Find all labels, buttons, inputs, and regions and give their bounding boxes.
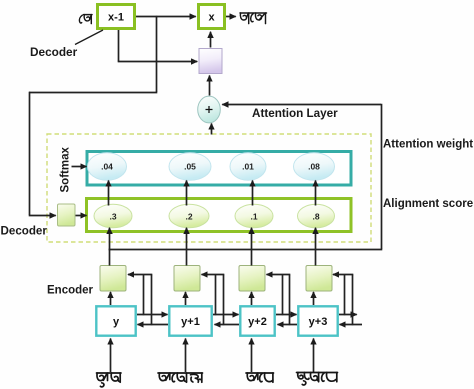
wire gap3 vertical right — [289, 275, 291, 326]
svg-text:.08: .08 — [308, 162, 320, 172]
wire score4 to weight4 — [315, 181, 317, 206]
wire h4 to score4 — [315, 228, 317, 266]
attention weight box — [87, 152, 351, 186]
svg-text:.2: .2 — [185, 212, 192, 222]
wire word4 to y+3 — [313, 339, 315, 373]
attention sum node + — [198, 96, 221, 123]
wire softmax into box — [72, 166, 87, 168]
svg-text:.3: .3 — [109, 212, 116, 222]
wire y+1 back to y — [138, 324, 169, 326]
encoder hidden box h4 — [306, 266, 332, 292]
wire back stub to y+3 — [340, 324, 363, 326]
wire y+3 forward stub — [339, 314, 357, 316]
attention weight ellipse .08 — [294, 153, 335, 181]
wire gap4 vertical left — [344, 275, 346, 316]
wire context bus — [109, 249, 383, 251]
svg-text:.01: .01 — [242, 162, 254, 172]
svg-text:Decoder: Decoder — [30, 45, 78, 59]
wire gap4 vertical right — [352, 275, 354, 326]
wire y forward to y+1 — [137, 314, 168, 316]
wire gap3 vertical left — [282, 275, 284, 316]
svg-text:.04: .04 — [101, 162, 113, 172]
encoder cell y+2 — [240, 306, 274, 335]
svg-text:.8: .8 — [312, 212, 319, 222]
wire into combine box — [118, 61, 198, 63]
decoder state box (small green) — [58, 204, 76, 226]
svg-text:Attention Layer: Attention Layer — [252, 107, 338, 120]
wire word1 to y — [110, 339, 112, 373]
wire decoder state to alignment — [76, 215, 87, 217]
wire word3 to y+2 — [251, 339, 253, 373]
wire x-1 to x — [136, 16, 196, 18]
alignment score ellipse .2 — [169, 204, 209, 228]
wire attention feed vertical — [381, 104, 383, 249]
wire score2 to weight2 — [186, 181, 188, 206]
wire plus to combine — [209, 76, 211, 96]
wire score1 to weight1 — [108, 181, 110, 206]
wire score3 to weight3 — [252, 181, 254, 206]
wire gap2 into h2 — [202, 274, 225, 276]
dashed region (attention block) — [47, 134, 371, 242]
wire y+3 back to y+2 — [278, 324, 298, 326]
alignment score ellipse .3 — [94, 204, 132, 228]
wire gap2 vertical right — [223, 275, 225, 326]
alignment score ellipse .1 — [235, 204, 273, 228]
svg-text:y+3: y+3 — [309, 316, 328, 328]
svg-text:Decoder: Decoder — [1, 225, 48, 238]
bengali word "me" left of x-1 — [79, 15, 92, 24]
wire x to output — [226, 16, 236, 18]
wire y+1 forward to y+2 — [213, 314, 239, 316]
bengali word "skul" — [97, 373, 122, 387]
wire gap4 into h4 — [333, 274, 353, 276]
alignment score ellipse .8 — [298, 204, 335, 228]
attention weight ellipse .01 — [230, 153, 266, 181]
decoder cell x — [199, 5, 225, 29]
combine box (lavender) — [199, 49, 222, 74]
wire down left side — [29, 92, 31, 215]
svg-text:y+1: y+1 — [181, 316, 200, 328]
attention weight ellipse .04 — [88, 153, 127, 181]
svg-text:y: y — [113, 316, 120, 328]
bengali word "kolej" — [158, 373, 203, 382]
wire y+3 to h4 — [313, 292, 315, 305]
svg-text:x: x — [208, 12, 215, 24]
wire gap3 into h3 — [267, 274, 291, 276]
alignment score box — [87, 199, 352, 232]
wire x-1 down — [118, 30, 120, 62]
encoder cell y+1 — [169, 306, 211, 335]
svg-text:Softmax: Softmax — [60, 147, 72, 193]
wire attention feed horizontal — [222, 104, 381, 106]
encoder cell y — [96, 306, 135, 335]
pointer line Decoder — [75, 30, 103, 45]
svg-text:.1: .1 — [250, 212, 257, 222]
wire word2 to y+1 — [185, 339, 187, 373]
attention weight ellipse .05 — [169, 153, 211, 181]
wire gap1 vertical left — [143, 275, 145, 316]
wire gap2 vertical left — [215, 275, 217, 316]
bengali word "mase" right of x — [240, 13, 267, 24]
wire into decoder state box — [29, 215, 56, 217]
wire junction down from x-1/x link — [156, 16, 158, 92]
encoder cell y+3 — [298, 306, 337, 335]
bengali word "kobe" — [246, 373, 274, 382]
wire gap1 into h1 — [128, 274, 152, 276]
svg-text:Attention weight: Attention weight — [383, 139, 473, 151]
svg-text:Encoder: Encoder — [47, 285, 94, 297]
decoder cell x-1 — [98, 5, 135, 29]
svg-text:Alignment score: Alignment score — [383, 198, 473, 210]
wire h3 to score3 — [251, 228, 253, 266]
encoder hidden box h1 — [100, 266, 126, 292]
wire across to left — [29, 92, 157, 94]
wire gap1 vertical right — [151, 275, 153, 326]
svg-text:x-1: x-1 — [108, 12, 124, 24]
wire weights to plus — [211, 124, 213, 135]
wire combine to x — [210, 32, 212, 48]
svg-text:y+2: y+2 — [248, 316, 267, 328]
wire y+1 to h2 — [185, 292, 187, 305]
bengali word "khulbe" — [297, 373, 338, 386]
encoder hidden box h2 — [174, 266, 200, 292]
wire y+2 back to y+1 — [215, 324, 240, 326]
wire h1 to score1 — [109, 228, 111, 266]
wire y+2 to h3 — [251, 292, 253, 305]
svg-text:.05: .05 — [184, 162, 196, 172]
wire y to h1 — [110, 292, 112, 305]
encoder hidden box h3 — [239, 266, 265, 292]
wire h2 to score2 — [186, 228, 188, 266]
wire y+2 forward to y+3 — [276, 314, 297, 316]
